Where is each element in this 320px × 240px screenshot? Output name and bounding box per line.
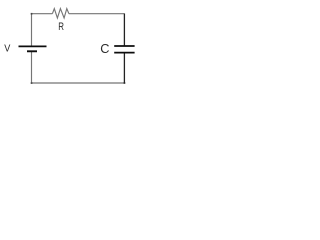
svg-text:V: V [4, 43, 10, 55]
svg-text:R: R [58, 21, 64, 34]
svg-text:C: C [100, 41, 109, 56]
